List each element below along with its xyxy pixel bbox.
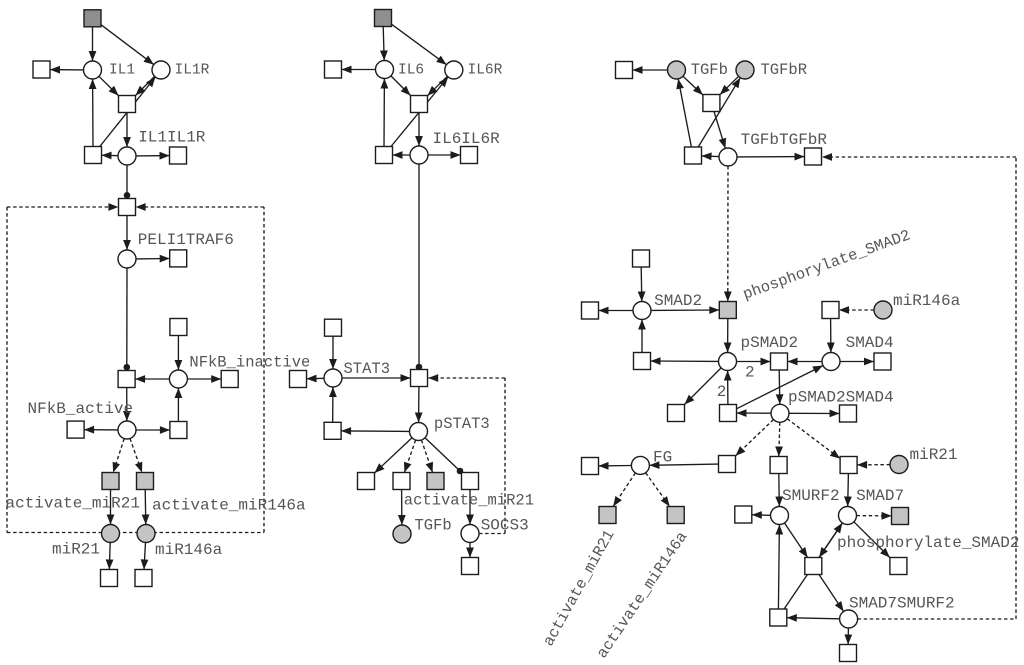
svg-text:SMAD4: SMAD4: [846, 334, 894, 352]
svg-text:SMURF2: SMURF2: [782, 487, 840, 505]
svg-text:SMAD2: SMAD2: [654, 292, 702, 310]
svg-text:NFkB_inactive: NFkB_inactive: [189, 354, 310, 372]
svg-text:IL1R: IL1R: [175, 63, 210, 79]
svg-text:SMAD7: SMAD7: [856, 487, 904, 505]
svg-text:activate_miR21: activate_miR21: [404, 492, 534, 510]
svg-text:PELI1TRAF6: PELI1TRAF6: [138, 231, 234, 249]
svg-text:SOCS3: SOCS3: [481, 517, 529, 535]
svg-text:activate_miR146a: activate_miR146a: [152, 497, 306, 515]
svg-text:miR21: miR21: [52, 541, 100, 559]
svg-text:STAT3: STAT3: [344, 360, 391, 378]
svg-text:TGFbTGFbR: TGFbTGFbR: [741, 131, 828, 149]
svg-text:2: 2: [717, 383, 727, 401]
svg-text:IL1IL1R: IL1IL1R: [138, 129, 206, 147]
svg-text:2: 2: [745, 363, 755, 381]
svg-text:miR146a: miR146a: [155, 541, 223, 559]
svg-text:miR21: miR21: [910, 446, 958, 464]
svg-text:IL6R: IL6R: [468, 63, 503, 79]
svg-text:pSMAD2: pSMAD2: [741, 334, 799, 352]
svg-text:SMAD7SMURF2: SMAD7SMURF2: [849, 594, 955, 612]
svg-text:IL6: IL6: [398, 63, 424, 79]
svg-text:phosphorylate_SMAD2: phosphorylate_SMAD2: [837, 534, 1019, 552]
svg-text:pSMAD2SMAD4: pSMAD2SMAD4: [788, 389, 894, 407]
svg-text:TGFb: TGFb: [415, 517, 452, 535]
svg-text:TGFb: TGFb: [691, 61, 728, 79]
svg-text:miR146a: miR146a: [893, 292, 961, 310]
svg-text:IL1: IL1: [109, 63, 135, 79]
svg-text:IL6IL6R: IL6IL6R: [433, 130, 501, 148]
svg-text:pSTAT3: pSTAT3: [434, 415, 490, 433]
svg-text:FG: FG: [653, 449, 672, 467]
svg-text:NFkB_active: NFkB_active: [28, 400, 134, 418]
svg-text:TGFbR: TGFbR: [761, 61, 808, 79]
svg-text:activate_miR21: activate_miR21: [6, 495, 140, 513]
